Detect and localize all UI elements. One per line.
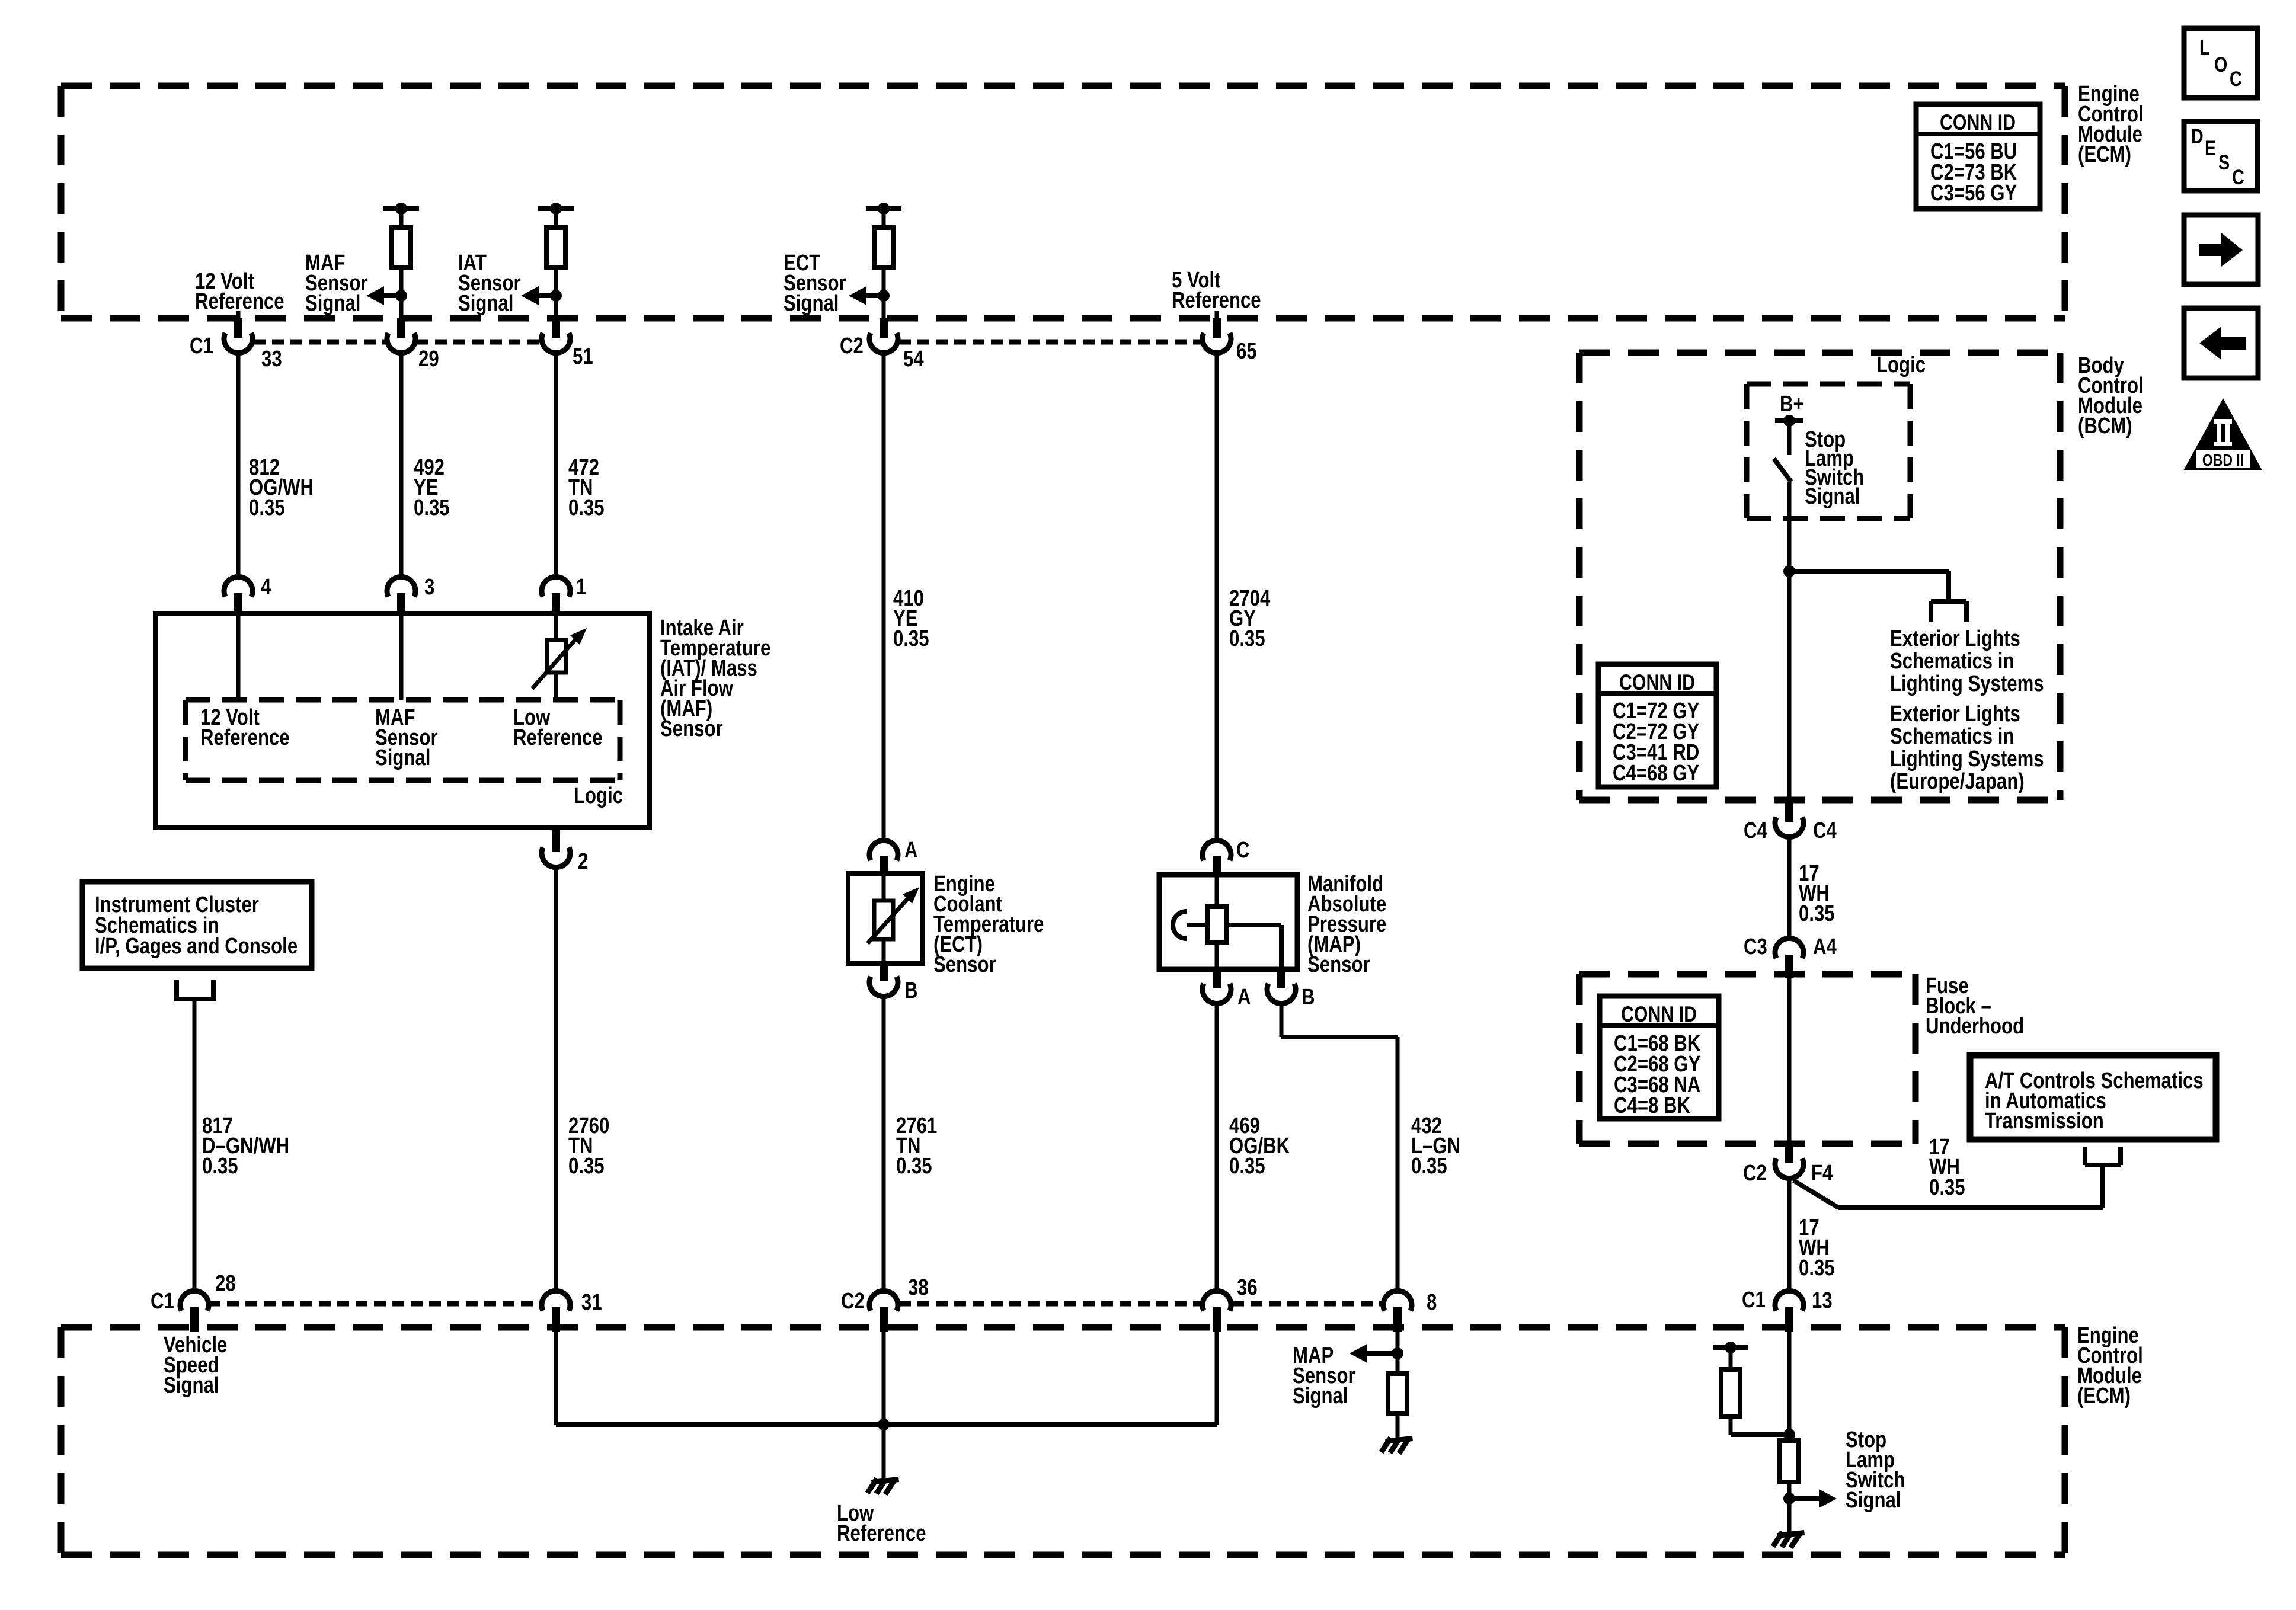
wire 432 L-GN (1281, 1003, 1398, 1291)
svg-text:Signal: Signal (784, 291, 839, 316)
svg-text:0.35: 0.35 (1229, 1154, 1265, 1179)
svg-text:Transmission: Transmission (1985, 1109, 2104, 1134)
svg-text:65: 65 (1236, 339, 1257, 364)
wire 817 D-GN/WH (193, 999, 197, 1291)
svg-text:Signal: Signal (1293, 1384, 1348, 1409)
ground stop lamp (1774, 1533, 1802, 1545)
wire ECT signal to connector (878, 267, 890, 320)
label pin 51 (573, 344, 593, 369)
node stop lamp junction 2 (1783, 1493, 1795, 1505)
svg-text:0.35: 0.35 (1411, 1154, 1447, 1179)
wire MAF signal to connector (395, 267, 407, 320)
wire 2761 TN (882, 996, 886, 1291)
pin stub connector 33 (234, 318, 242, 338)
connector terminal B MAP (1267, 984, 1296, 1004)
icon back arrow box (2184, 308, 2258, 378)
wire 492 YE (399, 352, 404, 578)
label MAP Sensor Signal (1293, 1343, 1355, 1409)
node B+ feed (1775, 415, 1803, 427)
label Low Reference (837, 1501, 926, 1546)
svg-text:29: 29 (418, 347, 439, 372)
wire inside ECT box bottom (882, 939, 886, 964)
pin stub C MAP (1213, 856, 1221, 876)
connector terminal B ECT (869, 977, 898, 997)
wire 472 TN (554, 352, 558, 578)
svg-text:A: A (904, 838, 918, 863)
resistor internal stop lamp series (1780, 1441, 1799, 1482)
svg-text:O: O (2214, 53, 2227, 76)
label Logic BCM (1876, 353, 1926, 377)
pin stub 8 (1393, 1307, 1402, 1332)
wire stop lamp signal main (1787, 1332, 1792, 1441)
dotted connector line C1 group (254, 340, 541, 345)
svg-text:0.35: 0.35 (896, 1154, 932, 1179)
connector terminal 51 (542, 333, 570, 353)
label Stop Lamp Switch Signal BCM (1805, 427, 1864, 509)
svg-text:36: 36 (1237, 1275, 1258, 1300)
label connector C1 bottom (151, 1289, 174, 1314)
svg-text:Reference: Reference (837, 1521, 926, 1546)
MAF logic dashed box (186, 700, 620, 780)
ECM bottom dashed box (61, 1327, 2065, 1555)
connector terminal 36 ECM bottom (1203, 1291, 1231, 1311)
label 17 WH 0.35 (A/T branch) (1929, 1135, 1965, 1200)
arrow IAT sensor signal (521, 286, 556, 305)
wire junction to ground (882, 1425, 886, 1480)
svg-text:OBD II: OBD II (2202, 452, 2244, 470)
pressure port symbol MAP (1173, 911, 1207, 939)
svg-text:Reference: Reference (1172, 288, 1261, 313)
label connector C2 bottom (841, 1289, 865, 1314)
label Body Control Module (BCM) (2078, 353, 2144, 438)
pin stub 31 (552, 1307, 560, 1332)
wire pin8 into ECM (1396, 1332, 1400, 1374)
wire pin3 inside MAF box (399, 616, 404, 700)
arrow MAP sensor signal (1350, 1344, 1398, 1363)
ground MAP signal (1383, 1439, 1410, 1451)
svg-text:C3=56 GY: C3=56 GY (1930, 181, 2017, 206)
svg-text:Sensor: Sensor (1307, 952, 1370, 977)
Instrument Cluster reference box (82, 882, 312, 968)
CONN ID table BCM (1598, 664, 1716, 787)
svg-text:CONN ID: CONN ID (1619, 670, 1695, 695)
icon LOC box (2184, 28, 2257, 98)
pin stub connector 2 (552, 828, 560, 852)
svg-text:Reference: Reference (195, 289, 284, 314)
wire through fuse block (1787, 978, 1792, 1145)
pin stub A ECT (880, 856, 888, 876)
wire resistor to ground (1787, 1482, 1792, 1533)
label Vehicle Speed Signal (164, 1333, 227, 1398)
label 432 L-GN 0.35 (1411, 1113, 1460, 1179)
label 817 D-GN/WH 0.35 (202, 1113, 289, 1179)
connector terminal 31 ECM bottom (542, 1291, 570, 1311)
svg-text:C3: C3 (1744, 934, 1767, 959)
wire internal IAT pull-up T-bar (538, 203, 574, 228)
label 12 Volt Reference (195, 269, 284, 314)
wire resistor to ground (1396, 1413, 1400, 1439)
label 17 WH 0.35 (to ECM) (1799, 1215, 1835, 1281)
label connector C1 right (1742, 1288, 1766, 1313)
svg-text:CONN ID: CONN ID (1621, 1002, 1697, 1027)
wire thermistor to logic (554, 673, 558, 700)
CONN ID table ECM (1916, 104, 2040, 209)
svg-text:(ECM): (ECM) (2078, 142, 2131, 167)
node MAP signal junction (1392, 1347, 1403, 1359)
label Instrument Cluster Schematics (95, 892, 298, 959)
connector terminal 4 MAF sensor (224, 577, 252, 597)
dotted connector line C2 bottom group (899, 1301, 1382, 1307)
wire internal MAF pull-up T-bar (383, 203, 419, 228)
arrow MAF sensor signal (366, 286, 401, 305)
wire 17 WH C4 to C3 (1787, 836, 1792, 938)
svg-text:0.35: 0.35 (249, 495, 285, 520)
svg-text:Sensor: Sensor (660, 716, 723, 741)
wire low reference bus (556, 1422, 1217, 1427)
label pin C4 right (1813, 818, 1837, 843)
label 410 YE 0.35 (893, 586, 929, 651)
svg-text:3: 3 (424, 575, 434, 600)
svg-text:C4=68 GY: C4=68 GY (1613, 761, 1699, 786)
connector terminal 38 ECM bottom (869, 1291, 898, 1311)
label 492 YE 0.35 (414, 455, 450, 520)
connector terminal 2 (542, 847, 570, 868)
wire branch to A/T controls (1793, 1165, 2103, 1208)
thermistor IAT (variable resistor) (532, 628, 587, 689)
pin stub B ECT (880, 964, 888, 981)
label 472 TN 0.35 (568, 455, 605, 520)
connector terminal 28 ECM bottom (180, 1291, 209, 1311)
svg-text:Schematics in: Schematics in (1890, 724, 2014, 749)
off-page fork A/T controls (2085, 1147, 2121, 1165)
ECT sensor box (848, 873, 923, 964)
BCM dashed box (1579, 353, 2060, 800)
resistor internal pull-up stop lamp (1721, 1369, 1740, 1417)
wire internal ECT pull-up T-bar (866, 203, 901, 228)
label pin 31 (581, 1290, 602, 1315)
wire pin31 to low reference bus (554, 1332, 558, 1425)
svg-text:0.35: 0.35 (202, 1154, 238, 1179)
svg-text:Reference: Reference (200, 725, 290, 750)
resistor internal ECT pull-up (874, 228, 893, 267)
wire to exterior lights fork (1789, 571, 1949, 601)
label pin 28 (215, 1271, 236, 1296)
label pin 13 (1812, 1288, 1833, 1313)
label Engine Control Module (ECM) top (2078, 82, 2144, 167)
svg-text:Logic: Logic (1876, 353, 1926, 377)
label ECT Sensor Signal (784, 251, 846, 316)
svg-text:0.35: 0.35 (1229, 626, 1265, 651)
wire inside ECT box top (882, 873, 886, 901)
pin stub connector 29 (397, 318, 405, 338)
svg-text:13: 13 (1812, 1288, 1833, 1313)
svg-text:1: 1 (576, 575, 586, 600)
svg-text:0.35: 0.35 (568, 495, 605, 520)
label B+ (1780, 392, 1804, 417)
wire pin4 inside MAF box (236, 616, 241, 700)
label 2760 TN 0.35 (568, 1113, 609, 1179)
ECM top dashed box (61, 86, 2065, 318)
node stop lamp junction 1 (1783, 1429, 1795, 1441)
thermistor ECT (variable resistor) (868, 887, 919, 943)
icon forward arrow box (2184, 215, 2258, 284)
pin stub A MAP (1213, 969, 1221, 988)
wire pin38 to low reference (882, 1332, 886, 1425)
label MAF Sensor Signal (logic) (375, 705, 438, 770)
svg-text:B: B (1302, 985, 1315, 1010)
pin stub A4 (1785, 955, 1793, 978)
svg-text:CONN ID: CONN ID (1940, 110, 2016, 135)
label A/T Controls Schematics (1985, 1068, 2204, 1134)
wire 2760 TN (554, 866, 558, 1291)
label pin 65 (1236, 339, 1257, 364)
svg-text:0.35: 0.35 (893, 626, 929, 651)
svg-text:0.35: 0.35 (1929, 1175, 1965, 1200)
svg-text:C1: C1 (190, 334, 213, 359)
pin stub connector 54 (880, 318, 888, 338)
svg-text:0.35: 0.35 (414, 495, 450, 520)
arrow ECT sensor signal (849, 286, 884, 305)
svg-text:Signal: Signal (1846, 1488, 1901, 1513)
svg-text:L: L (2199, 36, 2210, 59)
pin stub 13 (1785, 1307, 1793, 1332)
wire pin1 to IAT thermistor (554, 616, 558, 640)
resistor internal MAP signal (1388, 1374, 1407, 1413)
MAF sensor box (155, 613, 650, 828)
pin stub connector 65 (1213, 318, 1221, 338)
icon DESC box (2184, 121, 2257, 191)
label pin A ECT (904, 838, 918, 863)
wire MAP element to pin B (1226, 925, 1281, 969)
label 12 Volt Reference (logic) (200, 705, 290, 750)
pin stub 28 (190, 1307, 199, 1332)
svg-text:Underhood: Underhood (1926, 1014, 2024, 1039)
svg-text:C: C (2230, 67, 2242, 90)
dotted connector line C2 group (899, 340, 1201, 345)
pin stub 4 (234, 593, 242, 616)
BCM logic dashed box (1747, 384, 1910, 518)
label connector C3 (1744, 934, 1767, 959)
resistor MAP element (1207, 907, 1226, 942)
node internal pullup T-bar (1713, 1342, 1748, 1353)
svg-text:A: A (1237, 985, 1251, 1010)
label 812 OG/WH 0.35 (249, 455, 314, 520)
wire inside MAP box (1215, 875, 1219, 907)
wire 12 Volt Reference pin (236, 311, 241, 320)
svg-text:C2: C2 (1743, 1161, 1767, 1186)
svg-text:C2: C2 (840, 334, 864, 359)
connector terminal C MAP (1203, 840, 1231, 860)
label connector C1 (190, 334, 213, 359)
svg-text:S: S (2218, 151, 2230, 174)
connector terminal 29 (387, 333, 415, 353)
wire pin36 to low reference bus (1215, 1332, 1219, 1425)
label pin 2 (578, 849, 588, 874)
svg-text:Signal: Signal (1805, 484, 1860, 509)
label Exterior Lights Schematics in Lighting Systems (1890, 626, 2044, 696)
connector terminal 54 (869, 333, 898, 353)
svg-text:Signal: Signal (305, 291, 360, 316)
pin stub 36 (1213, 1307, 1221, 1332)
label MAF Sensor Signal (305, 251, 368, 316)
label Logic (574, 783, 623, 808)
svg-text:Lighting Systems: Lighting Systems (1890, 747, 2044, 772)
svg-text:C4=8 BK: C4=8 BK (1614, 1093, 1690, 1118)
connector terminal 8 ECM bottom (1383, 1291, 1412, 1311)
svg-text:B+: B+ (1780, 392, 1804, 417)
pin stub 1 (552, 593, 560, 616)
svg-text:Reference: Reference (513, 725, 603, 750)
pin stub 3 (397, 593, 405, 616)
svg-text:2: 2 (578, 849, 588, 874)
svg-text:(BCM): (BCM) (2078, 414, 2132, 438)
label Intake Air Temperature (IAT)/ Mass Air Flow (MAF) Sensor (660, 616, 770, 741)
label Engine Control Module (ECM) bottom (2077, 1323, 2143, 1409)
svg-text:Signal: Signal (458, 291, 513, 316)
label pin 3 (424, 575, 434, 600)
pin stub C4 (1785, 803, 1793, 822)
svg-text:0.35: 0.35 (568, 1154, 605, 1179)
label pin 8 (1427, 1290, 1437, 1315)
svg-text:F4: F4 (1811, 1161, 1833, 1186)
svg-text:C1: C1 (151, 1289, 174, 1314)
Fuse Block Underhood dashed box (1579, 974, 1916, 1144)
label 469 OG/BK 0.35 (1229, 1113, 1290, 1179)
svg-text:8: 8 (1427, 1290, 1437, 1315)
label pin 1 (576, 575, 586, 600)
svg-text:Signal: Signal (164, 1373, 219, 1398)
svg-text:C: C (2232, 165, 2244, 188)
svg-text:C2: C2 (841, 1289, 865, 1314)
label pin A MAP (1237, 985, 1251, 1010)
label Fuse Block Underhood (1926, 974, 2024, 1039)
svg-text:38: 38 (908, 1275, 929, 1300)
node low reference junction (878, 1419, 890, 1430)
label pin 33 (261, 347, 282, 372)
wire switch to BCM output (1787, 482, 1792, 806)
pin stub B MAP (1277, 969, 1285, 988)
svg-text:I/P, Gages and Console: I/P, Gages and Console (95, 934, 298, 959)
wire 2704 GY (1215, 352, 1219, 841)
connector terminal C4 (1775, 817, 1803, 837)
svg-text:E: E (2205, 136, 2216, 159)
svg-text:(Europe/Japan): (Europe/Japan) (1890, 769, 2025, 794)
wire 5 Volt Reference pin (1215, 311, 1219, 320)
icon OBD II triangle (2183, 398, 2262, 470)
label pin 38 (908, 1275, 929, 1300)
MAP sensor box (1159, 875, 1297, 969)
label pin F4 (1811, 1161, 1833, 1186)
label pin B ECT (904, 978, 918, 1003)
svg-text:C4: C4 (1813, 818, 1837, 843)
svg-text:D: D (2191, 124, 2204, 148)
svg-text:B: B (904, 978, 918, 1003)
connector terminal 1 MAF sensor (542, 577, 570, 597)
connector terminal A MAP (1203, 984, 1231, 1004)
pin stub connector 51 (552, 318, 560, 338)
label Stop Lamp Switch Signal ECM (1846, 1427, 1905, 1513)
label IAT Sensor Signal (458, 251, 521, 316)
wire IAT signal to connector (550, 267, 562, 320)
wire 812 OG/WH (236, 352, 241, 578)
label Manifold Absolute Pressure (MAP) Sensor (1307, 872, 1386, 977)
svg-text:C4: C4 (1744, 818, 1767, 843)
resistor internal MAF pull-up (392, 228, 411, 267)
label 17 WH 0.35 (BCM to fuse block) (1799, 861, 1835, 926)
label pin B MAP (1302, 985, 1315, 1010)
wire MAP element to pin A (1215, 942, 1219, 969)
dotted connector line C1 bottom group (209, 1301, 541, 1307)
pin stub 38 (880, 1307, 888, 1332)
svg-text:Signal: Signal (375, 745, 430, 770)
svg-text:Logic: Logic (574, 783, 623, 808)
svg-text:31: 31 (581, 1290, 602, 1315)
svg-text:4: 4 (261, 575, 271, 600)
wire 17 WH to ECM (1787, 1177, 1792, 1291)
wire 410 YE (882, 352, 886, 841)
svg-text:Lighting Systems: Lighting Systems (1890, 671, 2044, 696)
connector terminal C1/13 (1775, 1291, 1803, 1311)
label connector C4 left (1744, 818, 1767, 843)
label pin C MAP (1236, 838, 1250, 863)
label pin 36 (1237, 1275, 1258, 1300)
arrow stop lamp switch signal (1789, 1489, 1837, 1508)
resistor internal IAT pull-up (546, 228, 565, 267)
svg-text:A4: A4 (1813, 934, 1837, 959)
node exterior lights junction (1783, 565, 1795, 577)
svg-text:0.35: 0.35 (1799, 1256, 1835, 1281)
wire B+ to switch (1787, 421, 1792, 455)
connector terminal 65 (1203, 333, 1231, 353)
label Engine Coolant Temperature (ECT) Sensor (933, 872, 1044, 977)
label connector C2 (840, 334, 864, 359)
svg-text:0.35: 0.35 (1799, 901, 1835, 926)
svg-text:(ECM): (ECM) (2077, 1384, 2131, 1409)
wire resistor to main junction (1731, 1417, 1789, 1435)
ground low reference (869, 1480, 896, 1492)
label Low Reference (logic) (513, 705, 603, 750)
pin stub C2/F4 (1785, 1145, 1793, 1163)
connector terminal 33 (224, 333, 252, 353)
label pin 54 (903, 347, 924, 372)
label 5 Volt Reference (1172, 268, 1261, 313)
svg-text:Exterior Lights: Exterior Lights (1890, 626, 2020, 651)
label 2761 TN 0.35 (896, 1113, 937, 1179)
connector terminal C2/F4 (1775, 1158, 1803, 1179)
label pin 29 (418, 347, 439, 372)
wire T-bar to resistor (1729, 1347, 1733, 1369)
switch stop lamp (1774, 459, 1791, 482)
svg-text:C: C (1236, 838, 1250, 863)
wire 469 OG/BK (1215, 1003, 1219, 1291)
connector terminal A ECT (869, 840, 898, 860)
label connector C2 fuse (1743, 1161, 1767, 1186)
svg-text:51: 51 (573, 344, 593, 369)
label Exterior Lights Schematics (Europe/Japan) (1890, 702, 2044, 794)
svg-text:C1: C1 (1742, 1288, 1766, 1313)
off-page fork Instrument Cluster (174, 980, 216, 999)
connector terminal C3/A4 (1775, 938, 1803, 958)
A/T Controls reference box (1970, 1055, 2216, 1140)
svg-text:Sensor: Sensor (933, 952, 996, 977)
label 2704 GY 0.35 (1229, 586, 1271, 651)
off-page fork exterior lights (1931, 601, 1966, 622)
svg-text:54: 54 (903, 347, 924, 372)
label pin 4 (261, 575, 271, 600)
svg-text:Exterior Lights: Exterior Lights (1890, 702, 2020, 726)
CONN ID table Fuse Block (1600, 996, 1719, 1119)
svg-text:33: 33 (261, 347, 282, 372)
